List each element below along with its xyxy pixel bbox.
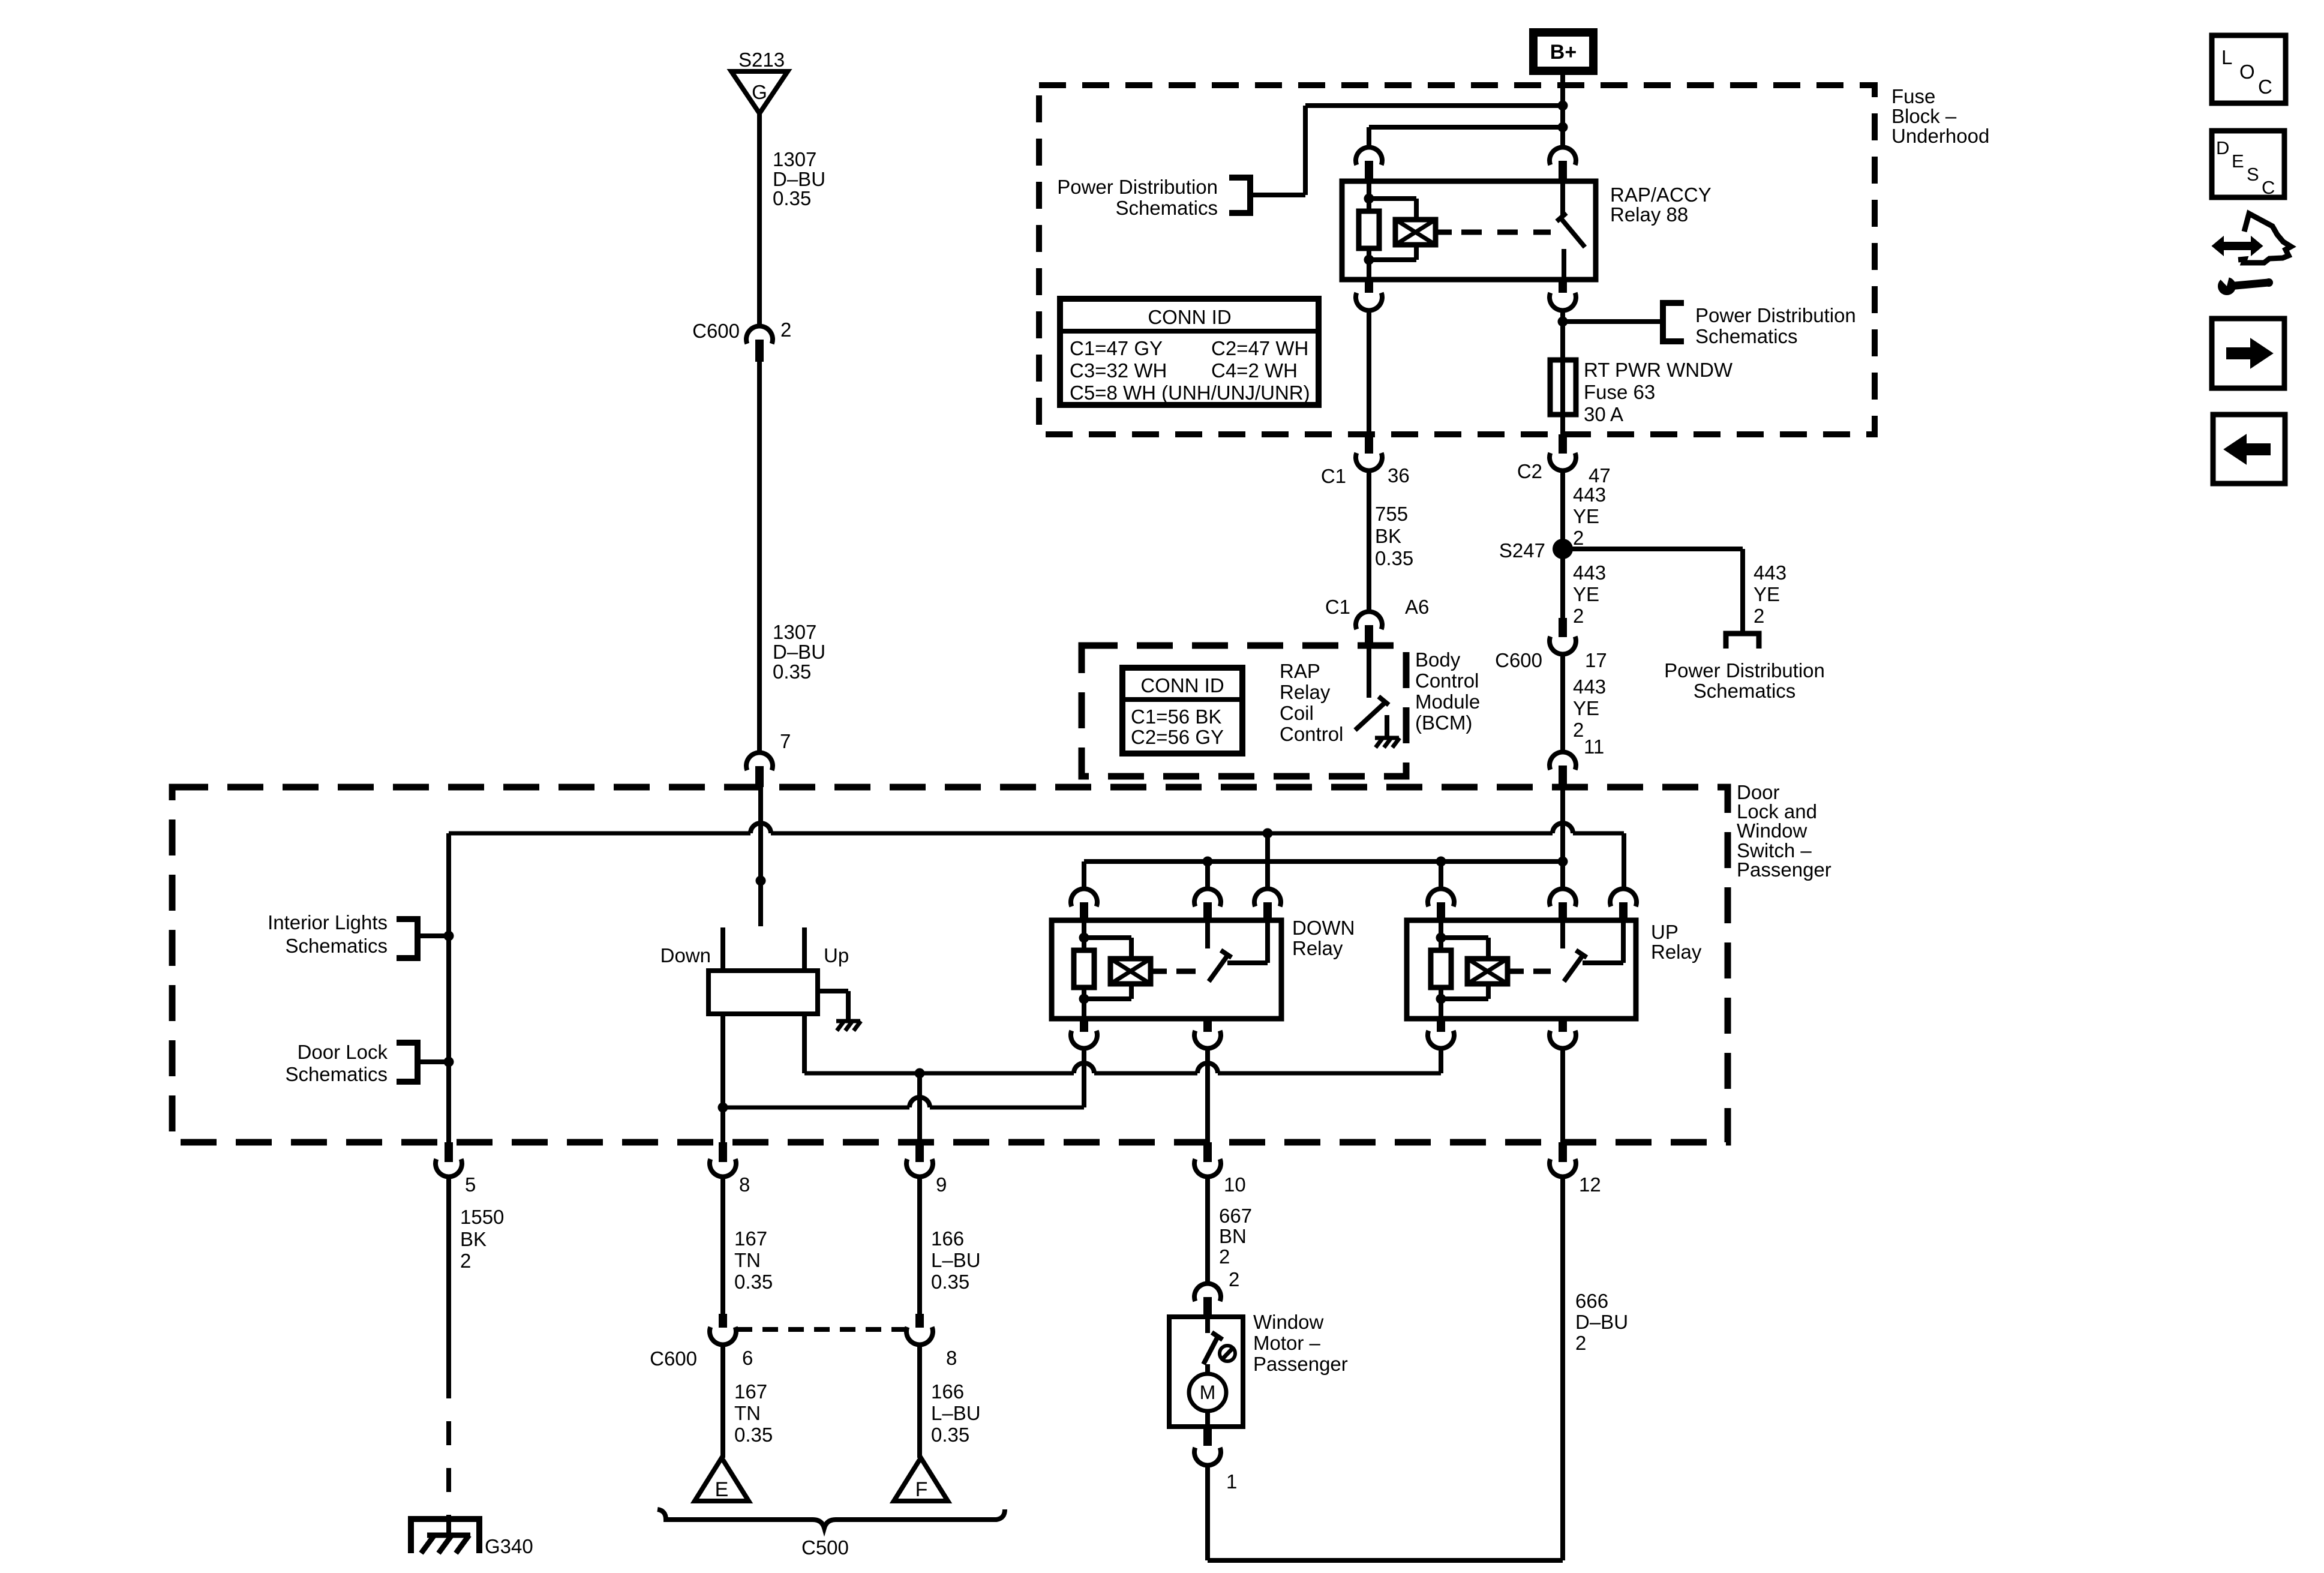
wire down leg <box>720 1014 725 1142</box>
svg-text:L–BU: L–BU <box>931 1249 981 1271</box>
wire B+ down <box>1560 75 1565 148</box>
wire feed bus 2 <box>1084 859 1563 864</box>
ground G340 <box>411 1519 479 1553</box>
table CONN ID BCM <box>1122 668 1242 754</box>
svg-text:0.35: 0.35 <box>773 661 811 683</box>
svg-text:167: 167 <box>734 1227 767 1250</box>
svg-text:666: 666 <box>1575 1290 1608 1312</box>
motor M circle <box>1189 1374 1226 1411</box>
svg-text:755: 755 <box>1375 503 1408 525</box>
svg-text:11: 11 <box>1584 736 1604 758</box>
svg-text:12: 12 <box>1579 1173 1601 1196</box>
svg-text:2: 2 <box>1573 605 1584 627</box>
connector pin 10 <box>1203 1142 1212 1162</box>
svg-text:C1: C1 <box>1321 465 1346 487</box>
power feed B+ <box>1533 32 1593 71</box>
connector E triangle <box>695 1458 749 1501</box>
svg-text:Power Distribution: Power Distribution <box>1057 176 1218 198</box>
svg-text:C500: C500 <box>801 1536 849 1559</box>
svg-text:Up: Up <box>824 944 849 966</box>
wire to power distribution right callout <box>1563 319 1663 324</box>
connector C600 pin 8 <box>915 1314 924 1328</box>
svg-text:5: 5 <box>465 1173 476 1196</box>
svg-text:C1=56 BK: C1=56 BK <box>1131 706 1221 728</box>
svg-text:E: E <box>2232 151 2244 172</box>
connector UP relay coil bottom <box>1437 1019 1445 1032</box>
splice S247 <box>1553 539 1573 559</box>
callout bracket power distribution right <box>1663 303 1684 341</box>
wire switch ground tap <box>818 989 848 993</box>
connector C600 pin 17 <box>1559 618 1567 637</box>
svg-text:TN: TN <box>734 1402 761 1424</box>
icon DESC box <box>2212 131 2284 197</box>
svg-text:BK: BK <box>1375 525 1401 547</box>
motor internals switch and breaker <box>1205 1317 1210 1333</box>
svg-text:(BCM): (BCM) <box>1415 712 1472 734</box>
switch RAP relay coil control <box>1367 646 1371 698</box>
wire DOWN output to pin 10 <box>1205 1049 1210 1142</box>
wire line B down-to-DOWN-coil <box>723 1106 909 1110</box>
wire C600 pin2 to pin 7 <box>757 362 762 752</box>
svg-text:YE: YE <box>1753 583 1780 605</box>
svg-text:36: 36 <box>1388 464 1410 487</box>
svg-text:17: 17 <box>1585 649 1607 671</box>
svg-text:F: F <box>915 1478 928 1501</box>
wire bus left leg <box>446 833 451 1142</box>
connector RAP relay pin 30 <box>1550 148 1576 165</box>
svg-text:Block –: Block – <box>1891 105 1957 127</box>
svg-text:7: 7 <box>780 730 791 752</box>
wire UP output to pin 12 <box>1560 1049 1565 1142</box>
svg-text:RT PWR WNDW: RT PWR WNDW <box>1584 359 1733 381</box>
svg-text:Passenger: Passenger <box>1737 858 1831 881</box>
connector DOWN relay output bottom <box>1203 1019 1212 1032</box>
svg-text:Window: Window <box>1253 1311 1324 1333</box>
node bus to DOWN NO <box>1263 828 1273 839</box>
connector DOWN relay coil pin <box>1071 889 1097 906</box>
svg-text:Control: Control <box>1415 670 1479 692</box>
svg-text:Relay 88: Relay 88 <box>1610 203 1688 226</box>
callout bracket power distribution left <box>1229 178 1250 213</box>
svg-text:2: 2 <box>1229 1268 1239 1290</box>
relay DOWN internals <box>1082 920 1086 950</box>
connector RAP relay pin 85 <box>1365 280 1373 293</box>
svg-text:Coil: Coil <box>1280 702 1314 724</box>
svg-text:0.35: 0.35 <box>734 1424 773 1446</box>
svg-text:2: 2 <box>1573 719 1584 741</box>
svg-text:443: 443 <box>1573 484 1606 506</box>
node door lock tap <box>444 1057 454 1067</box>
svg-text:Schematics: Schematics <box>1115 197 1218 219</box>
svg-text:443: 443 <box>1753 562 1786 584</box>
wire pin 7 into box <box>758 787 763 926</box>
svg-text:Relay: Relay <box>1292 937 1343 959</box>
wire S247 branch right <box>1563 547 1743 551</box>
svg-text:8: 8 <box>946 1347 957 1369</box>
svg-text:1: 1 <box>1226 1470 1237 1493</box>
svg-text:166: 166 <box>931 1227 964 1250</box>
connector pin 8 <box>719 1142 727 1162</box>
svg-text:S213: S213 <box>738 49 785 71</box>
relay UP box <box>1407 920 1636 1019</box>
connector C2 pin 47 <box>1559 434 1567 454</box>
wire S213 to C600 pin2 <box>757 113 762 326</box>
svg-text:6: 6 <box>742 1347 753 1369</box>
svg-text:C2=56 GY: C2=56 GY <box>1131 726 1224 748</box>
svg-text:C3=32 WH: C3=32 WH <box>1070 359 1167 382</box>
wire feed to relay coil <box>1369 125 1563 130</box>
svg-text:Schematics: Schematics <box>285 1063 388 1085</box>
svg-text:10: 10 <box>1224 1173 1246 1196</box>
relay RAP/ACCY 88 internals <box>1367 181 1371 211</box>
icon LOC box <box>2212 35 2286 103</box>
icon arrow-left box <box>2213 415 2285 484</box>
svg-text:E: E <box>715 1478 729 1501</box>
connector link C600 <box>737 1327 906 1332</box>
wire 1550 solid <box>446 1177 451 1374</box>
wire RAP 85 to C1 <box>1367 311 1371 434</box>
svg-text:Schematics: Schematics <box>1694 680 1796 702</box>
connector pin 5 <box>445 1142 453 1162</box>
node feed DOWN common <box>1203 857 1213 867</box>
svg-text:443: 443 <box>1573 562 1606 584</box>
svg-text:Window: Window <box>1737 819 1807 842</box>
svg-text:C1: C1 <box>1325 596 1350 618</box>
svg-text:UP: UP <box>1651 921 1679 943</box>
svg-text:C600: C600 <box>692 320 740 342</box>
svg-text:0.35: 0.35 <box>931 1424 969 1446</box>
wire 166 upper <box>917 1177 922 1314</box>
svg-text:B+: B+ <box>1550 41 1577 64</box>
node B+ junction 1 <box>1558 101 1568 111</box>
connector RAP relay pin 86 <box>1356 148 1382 165</box>
wire 167 lower <box>720 1345 725 1458</box>
connector C1 pin 36 <box>1365 434 1373 454</box>
node down leg junction <box>718 1103 728 1113</box>
connector DOWN relay coil bottom <box>1080 1019 1088 1032</box>
connector F triangle <box>894 1458 948 1501</box>
svg-text:0.35: 0.35 <box>1375 547 1413 569</box>
fuse block underhood box <box>1039 85 1875 434</box>
svg-text:CONN ID: CONN ID <box>1148 306 1231 328</box>
wire 755 to BCM <box>1367 471 1371 611</box>
wire S247 down <box>1560 549 1565 618</box>
svg-text:C: C <box>2262 177 2275 198</box>
svg-text:0.35: 0.35 <box>734 1271 773 1293</box>
relay UP internals <box>1439 920 1443 950</box>
switch window rocker <box>720 927 725 971</box>
fuse RT PWR WNDW 63 <box>1550 360 1576 415</box>
svg-text:2: 2 <box>780 319 791 341</box>
svg-text:D: D <box>2216 137 2229 158</box>
svg-text:RAP: RAP <box>1280 660 1320 682</box>
wire bus right leg to UP NO pin <box>1622 833 1626 888</box>
svg-text:Underhood: Underhood <box>1891 125 1989 147</box>
svg-text:9: 9 <box>936 1173 947 1196</box>
svg-text:Schematics: Schematics <box>1695 325 1798 347</box>
wire up leg <box>802 1014 807 1073</box>
svg-text:L–BU: L–BU <box>931 1402 981 1424</box>
svg-text:G: G <box>752 81 767 103</box>
svg-text:C600: C600 <box>1495 649 1542 671</box>
connector UP relay common pin <box>1550 889 1576 906</box>
svg-text:A6: A6 <box>1405 596 1429 618</box>
icon arrow-right box <box>2212 319 2284 388</box>
svg-text:BN: BN <box>1219 1225 1247 1247</box>
node S fuse feed <box>1558 317 1568 327</box>
svg-text:BK: BK <box>460 1228 487 1250</box>
svg-text:Relay: Relay <box>1651 941 1702 963</box>
svg-text:0.35: 0.35 <box>931 1271 969 1293</box>
wire pin 9 drop <box>917 1073 922 1142</box>
svg-text:1307: 1307 <box>773 148 816 170</box>
connector UP relay coil pin <box>1439 861 1443 888</box>
wire 443 to pin 11 <box>1560 655 1565 752</box>
connector pin 12 <box>1559 1142 1567 1162</box>
svg-text:L: L <box>2221 46 2232 68</box>
svg-text:Passenger: Passenger <box>1253 1353 1348 1375</box>
connector C500 brace <box>657 1509 1005 1528</box>
motor window passenger box <box>1169 1317 1243 1427</box>
node feed UP common <box>1558 857 1568 867</box>
connector UP relay output bottom <box>1559 1019 1567 1032</box>
svg-text:Relay: Relay <box>1280 681 1331 703</box>
ground S213 triangle <box>731 71 788 113</box>
callout bracket door lock <box>397 1043 418 1082</box>
connector motor pin 1 <box>1203 1427 1212 1446</box>
connector C600 pin 2 <box>746 326 773 344</box>
wire feed to power distribution callout <box>1305 103 1563 108</box>
svg-text:8: 8 <box>739 1173 750 1196</box>
wire motor return <box>1205 1466 1210 1560</box>
svg-text:Fuse: Fuse <box>1891 85 1935 107</box>
wire 167 upper <box>720 1177 725 1314</box>
svg-text:0.35: 0.35 <box>773 187 811 209</box>
icon car-wrench <box>2212 237 2262 255</box>
svg-text:C1=47 GY: C1=47 GY <box>1070 337 1163 359</box>
svg-text:Schematics: Schematics <box>285 935 388 957</box>
relay RAP/ACCY 88 box <box>1342 181 1596 280</box>
svg-text:Down: Down <box>660 944 711 966</box>
svg-text:Interior Lights: Interior Lights <box>268 911 388 933</box>
module BCM box <box>1082 646 1406 776</box>
svg-text:C5=8 WH (UNH/UNJ/UNR): C5=8 WH (UNH/UNJ/UNR) <box>1070 382 1310 404</box>
svg-text:M: M <box>1200 1382 1216 1403</box>
svg-text:YE: YE <box>1573 583 1599 605</box>
svg-text:167: 167 <box>734 1380 767 1403</box>
svg-text:1307: 1307 <box>773 621 816 643</box>
wire top bus <box>449 831 750 836</box>
connector half pi to power distribution <box>1726 634 1759 649</box>
svg-text:2: 2 <box>460 1250 471 1272</box>
relay DOWN box <box>1052 920 1281 1019</box>
ground window switch internal <box>836 1019 860 1023</box>
svg-text:Control: Control <box>1280 723 1343 745</box>
svg-text:Power Distribution: Power Distribution <box>1695 304 1856 326</box>
svg-text:443: 443 <box>1573 676 1606 698</box>
svg-text:S: S <box>2247 164 2259 185</box>
node interior lights tap <box>444 931 454 941</box>
svg-text:2: 2 <box>1753 605 1764 627</box>
wire 443 upper <box>1560 471 1565 549</box>
connector DOWN relay common pin <box>1205 861 1210 888</box>
svg-text:DOWN: DOWN <box>1292 917 1355 939</box>
svg-text:S247: S247 <box>1499 539 1545 562</box>
node switch feed <box>756 876 766 886</box>
node feed UP coil <box>1436 857 1446 867</box>
wire 166 lower <box>917 1345 922 1458</box>
svg-text:Module: Module <box>1415 691 1480 713</box>
svg-text:2: 2 <box>1219 1245 1230 1268</box>
connector DOWN relay NO pin <box>1265 833 1270 888</box>
svg-text:YE: YE <box>1573 697 1599 719</box>
node B+ junction 2 <box>1558 122 1568 133</box>
svg-text:C: C <box>2258 76 2272 98</box>
connector RAP relay pin 87 <box>1559 280 1567 293</box>
svg-text:YE: YE <box>1573 505 1599 527</box>
connector C600 pin 6 <box>719 1314 727 1328</box>
ground BCM internal <box>1375 736 1399 740</box>
svg-text:2: 2 <box>1575 1332 1586 1354</box>
svg-text:D–BU: D–BU <box>1575 1311 1628 1333</box>
svg-text:1550: 1550 <box>460 1206 504 1228</box>
node pin9 tap <box>915 1068 925 1079</box>
callout bracket interior lights <box>397 919 418 958</box>
svg-text:Body: Body <box>1415 649 1461 671</box>
svg-text:G340: G340 <box>485 1535 533 1557</box>
svg-text:C4=2 WH: C4=2 WH <box>1211 359 1298 382</box>
svg-text:CONN ID: CONN ID <box>1140 674 1224 697</box>
svg-text:2: 2 <box>1573 527 1584 549</box>
svg-text:667: 667 <box>1219 1205 1252 1227</box>
svg-text:D–BU: D–BU <box>773 641 825 663</box>
wire 666 <box>1560 1177 1565 1560</box>
connector UP relay NO pin <box>1610 889 1637 906</box>
svg-text:C600: C600 <box>650 1347 697 1370</box>
wire 1550 dashed <box>446 1374 451 1521</box>
svg-text:Motor –: Motor – <box>1253 1332 1321 1354</box>
svg-text:Door Lock: Door Lock <box>298 1041 388 1063</box>
svg-text:TN: TN <box>734 1249 761 1271</box>
wire RAP 87 down <box>1560 311 1565 360</box>
svg-text:166: 166 <box>931 1380 964 1403</box>
svg-text:C2: C2 <box>1517 460 1542 482</box>
table CONN ID fuse block <box>1060 299 1319 405</box>
svg-text:Power Distribution: Power Distribution <box>1664 659 1825 682</box>
wire 667 <box>1205 1177 1210 1283</box>
connector pin 9 <box>915 1142 924 1162</box>
svg-text:C2=47 WH: C2=47 WH <box>1211 337 1308 359</box>
wire pin 11 into box <box>1560 787 1565 888</box>
svg-text:RAP/ACCY: RAP/ACCY <box>1610 184 1712 206</box>
svg-text:30 A: 30 A <box>1584 403 1623 425</box>
door lock window switch box <box>172 787 1728 1142</box>
wire line A up-to-UP-coil <box>804 1071 1074 1076</box>
svg-text:O: O <box>2239 61 2255 83</box>
svg-text:Fuse 63: Fuse 63 <box>1584 381 1655 403</box>
